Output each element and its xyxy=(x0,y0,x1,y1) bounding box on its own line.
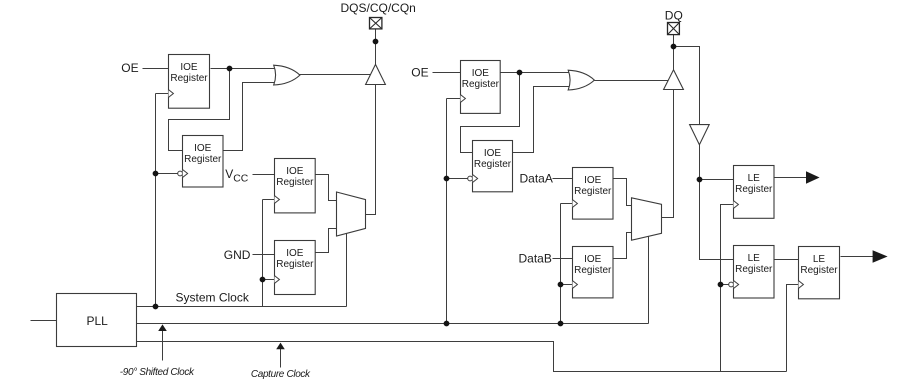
svg-text:System Clock: System Clock xyxy=(176,291,250,305)
wire DQ pad to buffer O2 xyxy=(673,35,675,72)
junction DQ pad xyxy=(671,44,677,50)
wire GND to U4.D xyxy=(253,254,275,256)
wire U11.Q output xyxy=(841,256,874,258)
svg-text:Register: Register xyxy=(574,186,612,197)
clock input U8 xyxy=(573,281,578,289)
OR gate G2 xyxy=(568,70,594,90)
wire PLL input xyxy=(31,320,57,322)
svg-text:IOE: IOE xyxy=(484,148,502,159)
wire DataA to U7.D xyxy=(553,178,573,180)
svg-text:PLL: PLL xyxy=(87,314,109,328)
clock input U11 xyxy=(799,281,804,289)
wire U2 clock input xyxy=(156,173,178,175)
clock input U5 xyxy=(461,95,466,103)
wire U9.Q output xyxy=(775,177,807,179)
wire system clock xyxy=(137,306,347,308)
wire U4.Q to mux M1 xyxy=(316,229,337,253)
wire clock net to U1 and U2 xyxy=(155,94,157,307)
clock input U10 with bubble xyxy=(729,282,734,287)
IOE register U2 xyxy=(183,136,224,188)
svg-text:DQ: DQ xyxy=(665,8,683,22)
svg-text:-90° Shifted Clock: -90° Shifted Clock xyxy=(120,367,195,378)
svg-text:VCC: VCC xyxy=(225,167,249,184)
IOE register U8 xyxy=(573,247,614,298)
input buffer O3 xyxy=(690,125,710,145)
clock input U2 with bubble xyxy=(178,171,183,176)
wire 90 degree shifted clock xyxy=(137,323,649,325)
wire G2 output to buffer O2 enable xyxy=(595,80,671,82)
svg-text:DataA: DataA xyxy=(520,171,553,185)
wire capture clock to U11 clock xyxy=(787,285,799,372)
arrow U9 output xyxy=(806,171,820,184)
svg-text:LE: LE xyxy=(748,253,761,264)
IOE register U4 xyxy=(275,241,316,295)
svg-text:Register: Register xyxy=(462,79,500,90)
wire U5.Q to OR gate G2 xyxy=(500,72,571,74)
junction system clock at U1 net xyxy=(153,304,159,310)
IOE register U3 xyxy=(275,159,316,213)
svg-text:Register: Register xyxy=(800,265,838,276)
pin DQ xyxy=(668,23,680,35)
wire capture clock xyxy=(137,342,787,372)
svg-text:Register: Register xyxy=(735,264,773,275)
clock input U7 xyxy=(573,200,578,208)
svg-text:Register: Register xyxy=(574,265,612,276)
wire mux M1 output to buffer O1 xyxy=(366,83,376,215)
wire DQ pad to input buffer O3 xyxy=(674,47,700,125)
IOE register U6 xyxy=(473,141,513,192)
junction DQS pad xyxy=(373,39,379,45)
IOE register U5 xyxy=(461,61,501,114)
wire U3.Q to mux M1 xyxy=(316,175,337,201)
svg-text:LE: LE xyxy=(748,173,761,184)
svg-text:IOE: IOE xyxy=(286,166,304,177)
svg-text:OE: OE xyxy=(121,61,138,75)
junction U1.Q xyxy=(227,66,233,72)
wire U6.Q to OR gate G2 xyxy=(513,87,571,153)
wire DataB to U8.D xyxy=(553,258,573,260)
wire U5 clock input xyxy=(447,98,461,100)
wire U1.Q to OR gate G1 xyxy=(211,68,277,70)
clock input U4 xyxy=(275,276,280,284)
svg-text:Register: Register xyxy=(474,159,512,170)
svg-text:DataB: DataB xyxy=(519,252,552,266)
clock input U1 xyxy=(169,90,174,98)
junction U4 clock xyxy=(260,277,266,283)
svg-text:DQS/CQ/CQn: DQS/CQ/CQn xyxy=(341,1,416,15)
arrow U11 output xyxy=(873,250,888,263)
wire OE to U5.D xyxy=(433,72,461,74)
wire clock net to U7 and U8 xyxy=(560,204,562,324)
clock input U9 xyxy=(734,201,739,209)
wire U7 clock input xyxy=(561,203,573,205)
mux M2 xyxy=(632,198,662,240)
wire U10 clock bubble stub xyxy=(721,284,729,286)
clock input U6 with bubble xyxy=(468,176,473,181)
wire VCC to U3.D xyxy=(253,174,275,176)
junction read data at U9 xyxy=(697,177,703,183)
wire U9 and U10 clock net to capture clock xyxy=(721,205,734,372)
svg-text:LE: LE xyxy=(813,254,826,265)
OR gate G1 xyxy=(274,65,300,85)
wire U7.Q to mux M2 xyxy=(614,179,633,206)
junction 90 degree clock at U7 net xyxy=(558,321,564,327)
arrow pointing to capture clock xyxy=(280,348,282,367)
svg-text:IOE: IOE xyxy=(180,62,198,73)
LE register U9 xyxy=(734,166,775,219)
LE register U11 xyxy=(799,247,840,299)
IOE register U1 xyxy=(169,55,210,109)
junction U2 clock xyxy=(153,171,159,177)
wire U4 clock input xyxy=(263,279,275,281)
junction U10 clock xyxy=(718,282,724,288)
svg-text:Register: Register xyxy=(170,73,208,84)
wire U8.Q to mux M2 xyxy=(614,233,633,259)
arrow pointing to 90 degree shifted clock xyxy=(162,330,164,361)
wire clock net to U3 and U4 xyxy=(262,200,264,307)
svg-text:IOE: IOE xyxy=(194,143,212,154)
tri-state output buffer O1 xyxy=(366,64,386,84)
wire U1 clock input xyxy=(156,93,169,95)
wire input buffer O3 to U10.D xyxy=(700,143,734,260)
wire U3 clock input xyxy=(263,199,275,201)
svg-text:GND: GND xyxy=(224,248,251,262)
svg-text:Register: Register xyxy=(276,259,314,270)
LE register U10 xyxy=(734,246,775,299)
svg-text:IOE: IOE xyxy=(584,175,602,186)
mux M1 xyxy=(337,192,366,236)
wire DQS pad to buffer O1 xyxy=(375,29,377,67)
svg-text:Register: Register xyxy=(735,184,773,195)
junction 90 degree clock at U5 net xyxy=(444,321,450,327)
junction U6 clock xyxy=(444,176,450,182)
wire U2.Q to OR gate G1 xyxy=(223,83,277,151)
wire U8 clock input xyxy=(561,284,573,286)
wire U10.Q to U11.D xyxy=(775,259,799,261)
svg-text:IOE: IOE xyxy=(584,254,602,265)
tri-state output buffer O2 xyxy=(664,70,684,90)
PLL xyxy=(57,294,137,347)
wire U1.Q feedback to U2.D xyxy=(169,69,230,151)
wire read data to U9.D xyxy=(700,179,734,181)
wire mux M1 select xyxy=(346,231,348,307)
svg-text:Register: Register xyxy=(276,177,314,188)
IOE register U7 xyxy=(573,168,614,220)
svg-text:IOE: IOE xyxy=(472,68,490,79)
wire U6 clock input xyxy=(447,178,468,180)
svg-text:OE: OE xyxy=(411,65,428,79)
clock input U3 xyxy=(275,196,280,204)
junction U8 clock xyxy=(558,282,564,288)
svg-text:IOE: IOE xyxy=(286,248,304,259)
wire U5.Q feedback to U6.D xyxy=(461,73,520,153)
wire clock net to U5 and U6 xyxy=(446,99,448,324)
pin DQS/CQ/CQn xyxy=(370,18,382,29)
junction U5.Q xyxy=(517,70,523,76)
svg-text:Register: Register xyxy=(184,154,222,165)
wire G1 output to buffer O1 enable xyxy=(300,74,373,76)
svg-text:Capture Clock: Capture Clock xyxy=(251,369,311,380)
wire mux M2 select xyxy=(648,235,650,324)
wire mux M2 output to buffer O2 xyxy=(662,89,674,218)
wire OE to U1.D xyxy=(143,68,169,70)
